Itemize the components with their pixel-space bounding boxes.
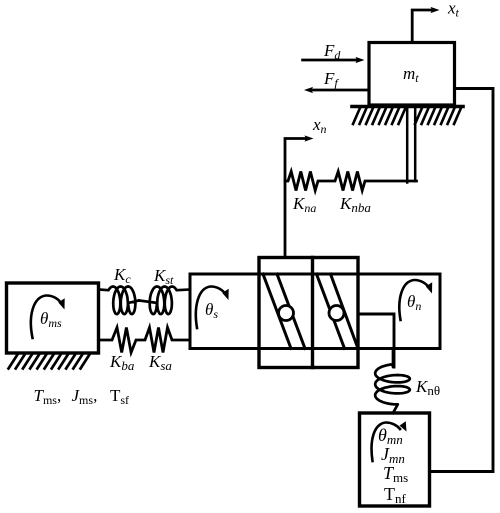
wire nut to spring K_ntheta [358, 314, 394, 367]
spring K_ntheta coil [375, 349, 410, 413]
force F_d arrow [303, 57, 365, 63]
rotation arrow theta_s [196, 286, 229, 328]
nut assembly box with divider [259, 258, 358, 368]
wire right connector table to J_mn box [430, 89, 494, 472]
motor inertia J_ms box [7, 283, 99, 353]
ball B2 [329, 306, 344, 321]
wire double link table to nut springs [407, 105, 415, 183]
rotation arrow theta_n [399, 280, 432, 320]
wire with springs K_na and K_nba [285, 172, 417, 191]
node x_t displacement arrow [412, 7, 439, 43]
node x_n displacement arrow and wire [285, 135, 314, 257]
motor inertia J_mn box [360, 413, 430, 506]
ground hatching under motor [9, 355, 90, 369]
ball screw raceway diagonals [263, 274, 358, 349]
ball B1 [279, 306, 294, 321]
springs K_ba and K_sa [99, 328, 191, 353]
rotation arrow theta_ms [31, 295, 65, 338]
ball screw shaft box [190, 274, 440, 349]
coil springs K_c and K_st [99, 287, 191, 315]
force F_f arrow [304, 87, 369, 93]
ground hatching under table [352, 107, 463, 125]
mass m_t (machine table) [369, 43, 455, 106]
rotation arrow theta_mn [372, 421, 407, 461]
